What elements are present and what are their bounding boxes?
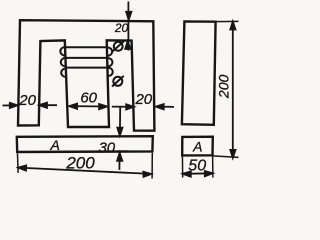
coil terminal O1 (wire end, circle with slash) <box>114 42 123 51</box>
armature bar (front view, bottom) <box>17 136 153 152</box>
dim 20 left limb: right arrow <box>40 104 58 106</box>
svg-text:A: A <box>50 137 60 153</box>
dim 30: down arrow onto armature bar <box>119 107 121 135</box>
dim 20 right limb: left arrow with drop line for dim 30 <box>112 106 134 108</box>
svg-text:A: A <box>192 139 202 155</box>
svg-text:200: 200 <box>215 75 231 100</box>
coil wire lines across limb <box>65 46 106 48</box>
dim 20 top yoke: vertical line with arrows <box>127 2 129 51</box>
svg-text:50: 50 <box>188 158 206 175</box>
dim 200 right figure: extension lines <box>216 20 239 22</box>
coil turn arcs right side of middle limb <box>107 48 112 56</box>
svg-text:200: 200 <box>65 153 95 172</box>
side view bar (right, 50x200) <box>182 21 216 124</box>
svg-text:20: 20 <box>114 21 129 35</box>
core outline (E-shaped magnetic core, front view) <box>18 20 154 131</box>
dim 200 bottom: extension lines <box>17 154 20 173</box>
coil turn arcs left side of middle limb <box>60 47 65 56</box>
svg-text:20: 20 <box>134 91 152 108</box>
dim 200 right: vertical dimension line with outward arrows <box>232 22 234 158</box>
side view armature section box A <box>182 137 213 156</box>
dim 20 left limb: left arrow <box>3 104 18 106</box>
dim 50: dimension line with outward arrows <box>183 172 212 175</box>
dim 20 right limb: right arrow <box>156 106 174 108</box>
svg-text:60: 60 <box>80 89 97 106</box>
svg-text:30: 30 <box>98 139 115 156</box>
dim 60 middle limb: line with outward arrows <box>70 105 107 107</box>
dim 200 bottom: dimension line with outward arrows <box>19 168 151 174</box>
svg-text:20: 20 <box>18 92 36 109</box>
dim 50: extension lines <box>181 156 183 178</box>
coil terminal O2 (wire end, circle with slash) <box>113 77 122 86</box>
dim 30: up arrow from 200 line <box>118 153 120 170</box>
